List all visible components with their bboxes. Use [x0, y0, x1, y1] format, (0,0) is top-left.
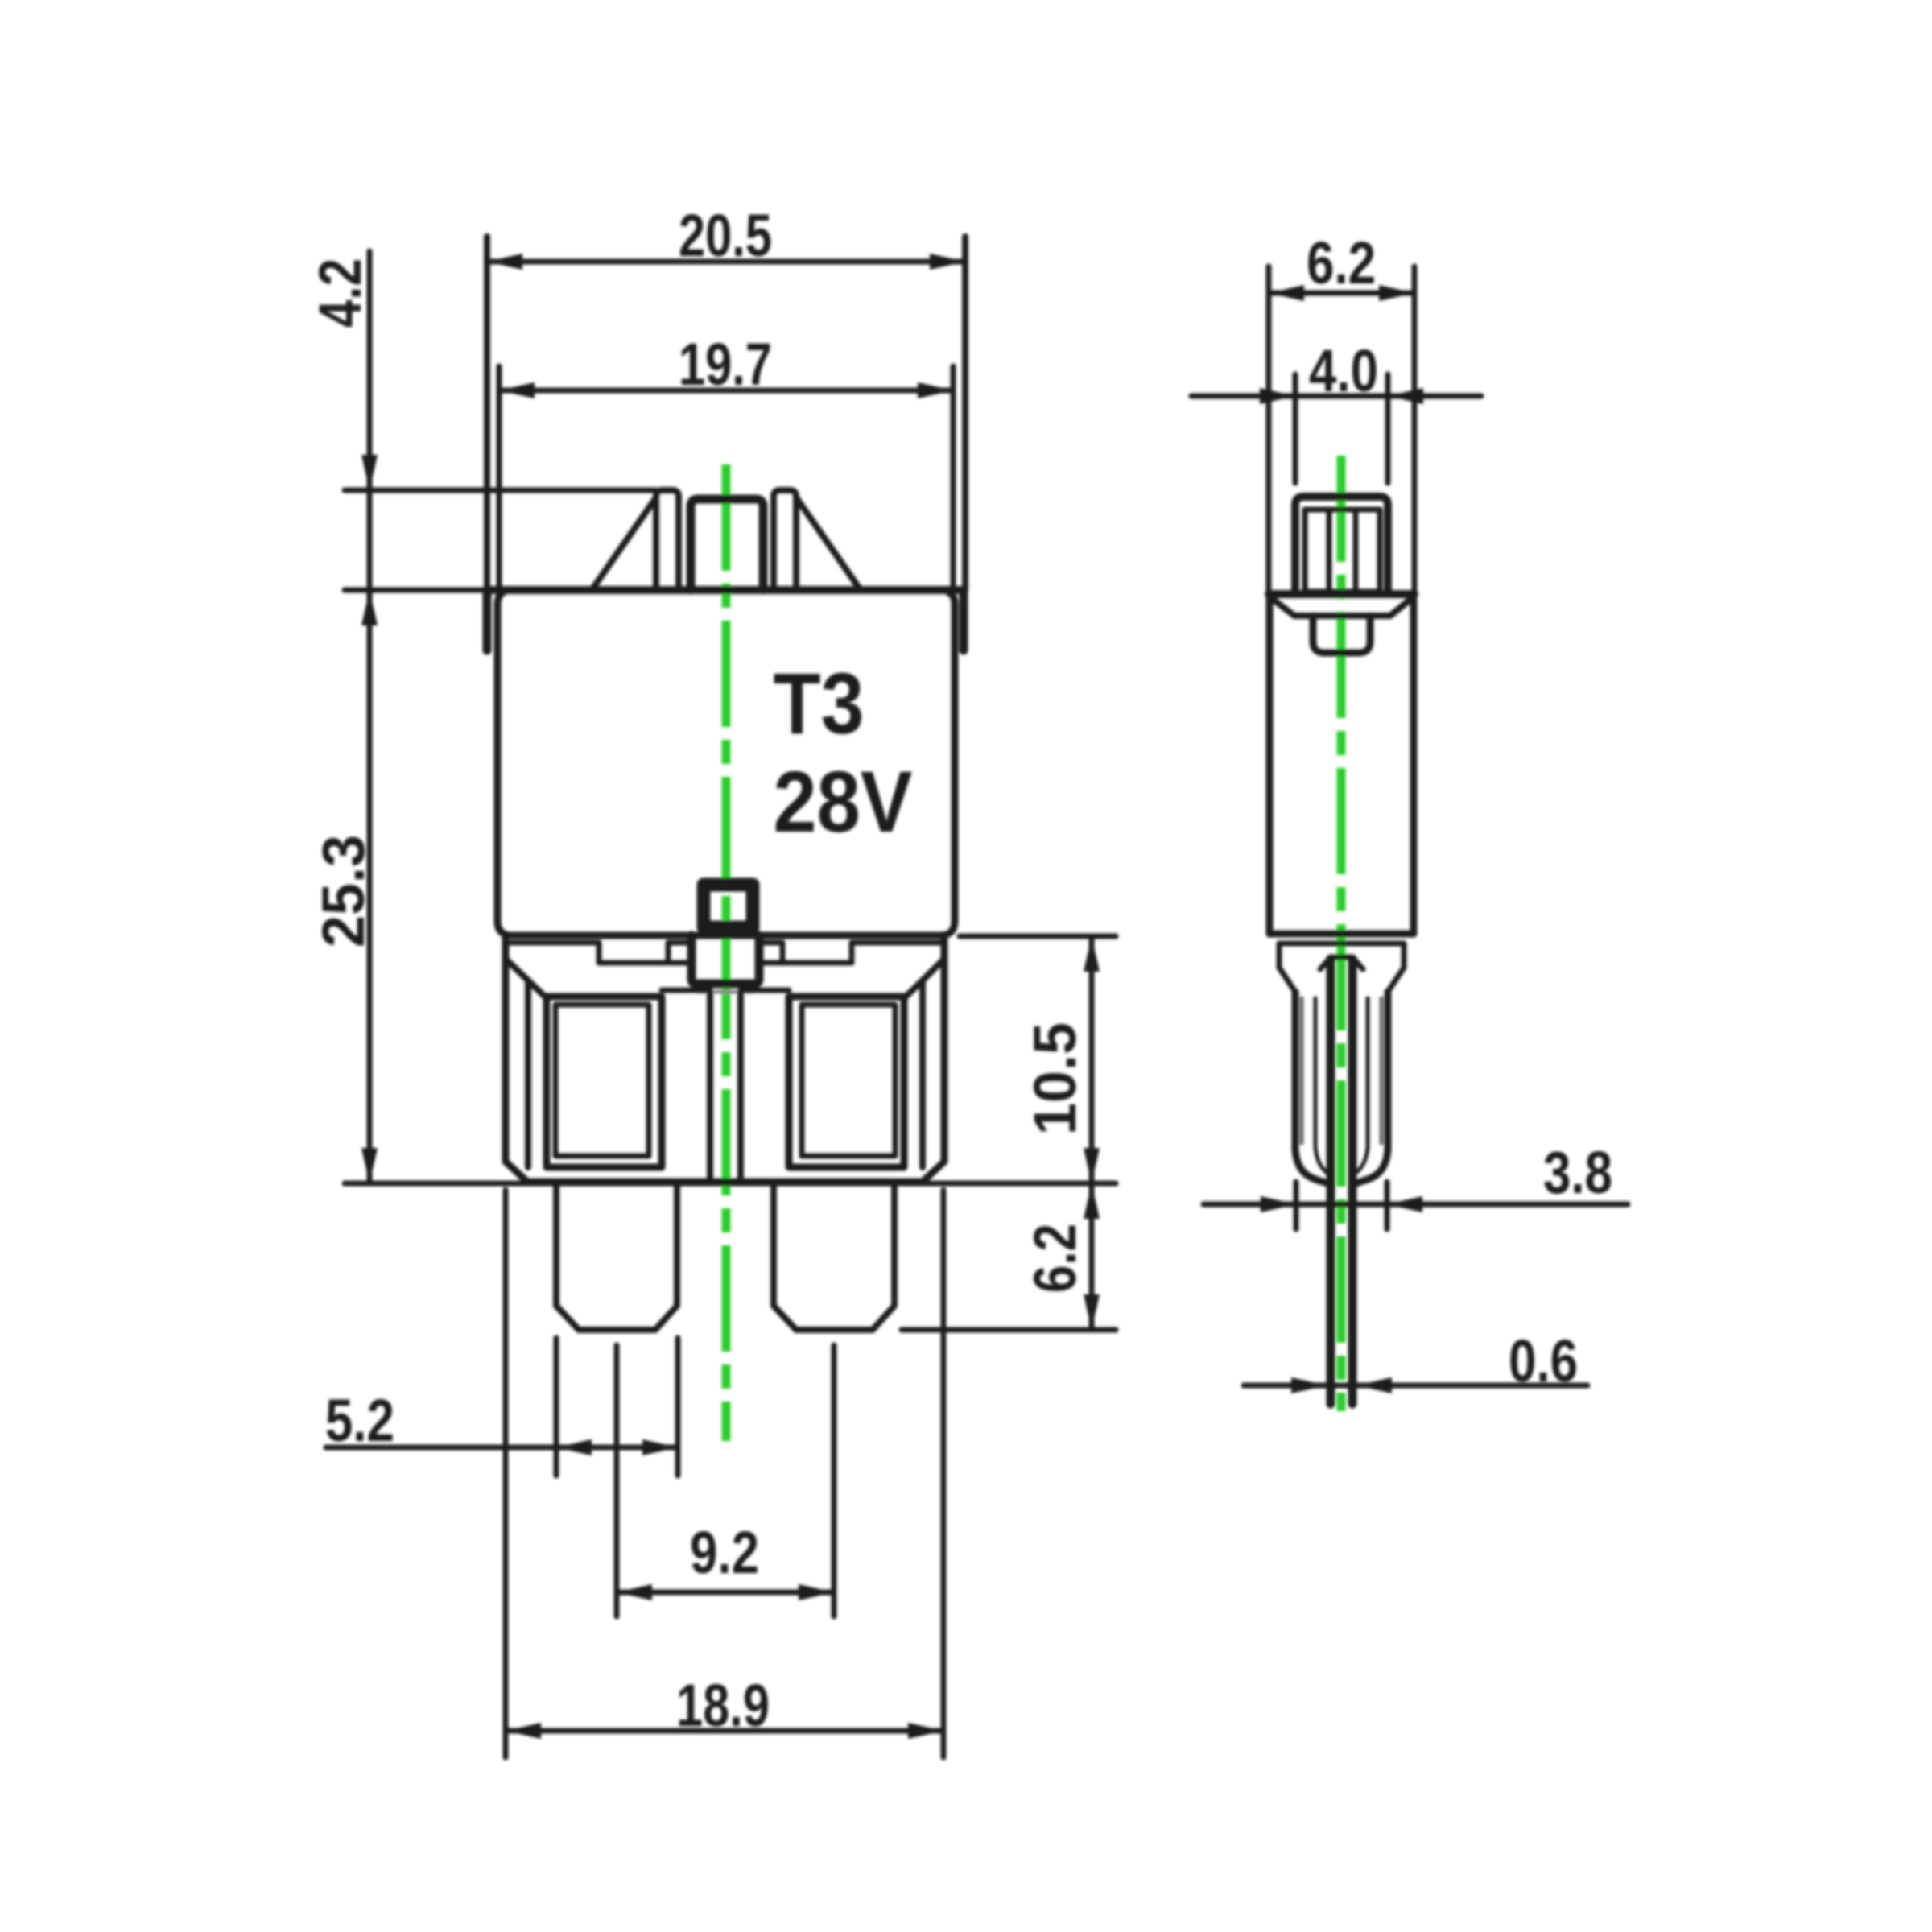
side body outline [1269, 597, 1414, 934]
center key [691, 935, 759, 984]
front view centerline [722, 464, 731, 1441]
center channel left wall [707, 992, 713, 1182]
side pedestal [1295, 992, 1388, 1184]
side collar [1279, 943, 1404, 992]
right window inner [802, 1005, 895, 1156]
front button left wing diagonal [592, 497, 656, 590]
dimension 5.2 [326, 1338, 678, 1476]
label T3 [774, 654, 865, 752]
svg-text:5.2: 5.2 [325, 1387, 394, 1454]
svg-text:25.3: 25.3 [310, 835, 377, 947]
svg-text:18.9: 18.9 [676, 1672, 770, 1739]
svg-text:28V: 28V [774, 753, 913, 850]
svg-text:6.2: 6.2 [1022, 1224, 1088, 1293]
svg-text:4.2: 4.2 [307, 258, 374, 328]
dimension 0.6 [1244, 1383, 1587, 1389]
side blade [1331, 959, 1352, 1404]
right blade [774, 1183, 894, 1330]
side pedestal inner lines [1302, 998, 1381, 1143]
front pushbutton [691, 499, 763, 590]
indicator window [704, 885, 753, 927]
dimension 6.2 front [902, 1183, 1116, 1330]
side button [1295, 497, 1388, 594]
svg-text:0.6: 0.6 [1509, 1327, 1578, 1394]
side button inner [1305, 510, 1380, 592]
label 28V [774, 753, 913, 850]
front button right ear [774, 490, 796, 590]
collar step right [759, 943, 945, 963]
side cap top [1269, 590, 1414, 598]
dimension 4.2 [345, 251, 656, 1183]
front cap right ear [960, 590, 968, 650]
front button left ear [656, 490, 679, 590]
side cap chamfers and bottom [1270, 597, 1413, 616]
front body outline [497, 590, 955, 935]
side latch tab [1313, 616, 1370, 653]
collar step left [506, 943, 691, 963]
svg-text:20.5: 20.5 [679, 202, 772, 269]
dimension 25.3 [310, 835, 378, 1183]
svg-text:6.2: 6.2 [1307, 229, 1376, 296]
dimension 18.9 [506, 1190, 943, 1757]
right window outer [789, 997, 904, 1167]
dimension 20.5 [487, 237, 965, 590]
center channel right wall [737, 992, 744, 1182]
dimension 4.0 [1191, 374, 1481, 483]
left window outer [547, 997, 662, 1167]
terminal block outline [506, 936, 944, 1182]
svg-text:9.2: 9.2 [690, 1519, 759, 1586]
dimension 19.7 [499, 366, 953, 590]
window-channel ledge left [662, 988, 710, 993]
side view centerline [1337, 456, 1346, 1411]
svg-text:T3: T3 [774, 654, 865, 752]
dimension 9.2 [617, 1345, 834, 1616]
svg-text:10.5: 10.5 [1022, 1022, 1088, 1135]
extension line body bottom right [960, 934, 1116, 939]
dimension 3.8 [1203, 1182, 1628, 1229]
left window inner [555, 1005, 649, 1156]
svg-text:4.0: 4.0 [1309, 337, 1378, 404]
window-channel ledge right [741, 988, 789, 993]
key shadow [697, 990, 753, 994]
left blade [556, 1183, 677, 1330]
svg-text:19.7: 19.7 [679, 331, 772, 398]
left bevel edges [506, 959, 547, 1167]
dimension 6.2 side [1269, 266, 1414, 594]
front button right wing diagonal [796, 497, 861, 590]
svg-text:3.8: 3.8 [1543, 1139, 1612, 1206]
extension line bottom of body / blade top [345, 1181, 1116, 1187]
front cap left ear [483, 590, 492, 650]
right bevel edges [904, 959, 944, 1167]
dimension 10.5 [1089, 936, 1095, 1183]
front cap top line [486, 586, 964, 594]
